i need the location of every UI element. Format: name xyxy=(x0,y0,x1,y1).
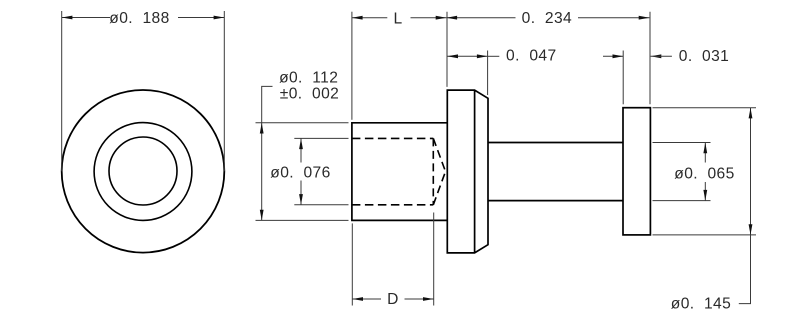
flange chamfer crease line xyxy=(474,90,476,253)
arrow up at washer top xyxy=(749,108,753,119)
dimension ⌀0.065 lower stub xyxy=(704,182,706,201)
arrow pointing right at washer left face xyxy=(613,54,624,58)
extension line right of 0.047 (flange right face) xyxy=(487,51,489,96)
arrow left of L xyxy=(352,16,363,20)
arrow left of 0.047 xyxy=(447,54,458,58)
dimension ⌀0.112 vertical line with leader xyxy=(262,86,273,220)
dimension L line right segment xyxy=(411,17,447,19)
extension line left (body face) xyxy=(351,223,353,305)
extension line right of 0.234 / 0.031 (washer right face) xyxy=(649,12,651,105)
arrow down at washer bottom xyxy=(749,224,753,235)
svg-text:ø0. 112: ø0. 112 xyxy=(279,69,338,86)
hidden drill cone lower dashed line xyxy=(433,172,445,205)
arrow down at body bottom xyxy=(260,210,264,221)
dimension L line left segment xyxy=(352,17,387,19)
extension line washer top xyxy=(653,107,757,109)
middle circle (body OD 0.112) xyxy=(94,123,192,221)
extension line body bottom xyxy=(256,219,349,221)
dimension ⌀0.188 line right segment xyxy=(178,17,224,19)
svg-text:D: D xyxy=(387,291,399,308)
arrow left of D xyxy=(352,297,363,301)
arrow up at shaft top xyxy=(703,143,707,154)
arrow down at shaft bottom xyxy=(703,190,707,201)
dimension ⌀0.065 upper stub xyxy=(704,143,706,163)
dimension ⌀0.188 line left segment xyxy=(62,17,110,19)
shared extension line at flange face (L right / 0.234 left / 0.047 left) xyxy=(446,12,448,87)
arrow left of 0.234 xyxy=(446,16,457,20)
arrow down at hole bottom xyxy=(299,194,303,205)
dimension ⌀0.188 extension line left xyxy=(61,11,63,171)
dimension ⌀0.145 vertical line with leader xyxy=(739,108,751,304)
dimension ⌀0.076 lower stub xyxy=(300,181,302,205)
dimension D line left segment xyxy=(352,298,381,300)
dimension 0.047 leader stub xyxy=(488,55,500,57)
extension line hole top xyxy=(294,137,348,139)
arrow pointing left at washer right face xyxy=(651,54,662,58)
svg-text:0. 047: 0. 047 xyxy=(506,48,557,65)
dimension ⌀0.188 extension line right xyxy=(223,11,225,171)
dimension 0.031 left stub with arrow xyxy=(603,55,623,57)
extension line hole bottom xyxy=(294,204,348,206)
arrow right of 0.047 xyxy=(477,54,488,58)
arrow right of 0.234 xyxy=(639,16,650,20)
hidden hole bottom dashed line xyxy=(352,204,433,206)
extension line body top xyxy=(256,122,349,124)
arrow right of ⌀0.188 xyxy=(214,16,225,20)
svg-text:L: L xyxy=(393,11,402,28)
extension line washer left face xyxy=(622,51,624,105)
dimension L extension line left xyxy=(351,12,353,120)
svg-text:0. 031: 0. 031 xyxy=(679,48,730,65)
hidden drill cone upper dashed line xyxy=(433,138,445,171)
arrow left of ⌀0.188 xyxy=(62,16,73,20)
dimension 0.234 line left segment xyxy=(446,17,515,19)
dimension 0.031 right stub xyxy=(651,55,672,57)
flange outline with chamfered rim xyxy=(447,90,488,253)
body (rear cylinder) outline xyxy=(352,123,447,221)
washer (end flange) outline xyxy=(623,108,650,235)
svg-text:ø0. 145: ø0. 145 xyxy=(671,295,731,312)
dimension 0.047 line between arrows xyxy=(447,55,487,57)
extension line right (hole depth) xyxy=(433,213,435,306)
arrow right of L xyxy=(436,16,447,20)
dimension 0.234 line right segment xyxy=(578,17,649,19)
outer circle (flange OD 0.188) xyxy=(62,90,225,253)
shaft top line xyxy=(488,142,623,144)
arrow up at hole top xyxy=(299,138,303,149)
extension line washer bottom xyxy=(653,234,757,236)
shaft bottom line xyxy=(488,200,623,202)
arrow up at body top xyxy=(260,123,264,134)
svg-text:ø0. 065: ø0. 065 xyxy=(674,166,734,183)
svg-text:ø0. 188: ø0. 188 xyxy=(109,10,169,27)
inner circle (hole 0.076) xyxy=(109,137,177,205)
extension line shaft bottom xyxy=(653,200,711,202)
dimension D line right segment xyxy=(405,298,434,300)
arrow right of D xyxy=(423,297,434,301)
hidden hole top dashed line xyxy=(352,137,433,139)
hidden hole end dashed line xyxy=(432,138,434,204)
svg-text:ø0. 076: ø0. 076 xyxy=(270,165,330,182)
svg-text:±0. 002: ±0. 002 xyxy=(280,86,339,103)
dimension ⌀0.076 upper stub xyxy=(300,138,302,162)
extension line shaft top xyxy=(653,142,711,144)
svg-text:0. 234: 0. 234 xyxy=(522,10,573,27)
